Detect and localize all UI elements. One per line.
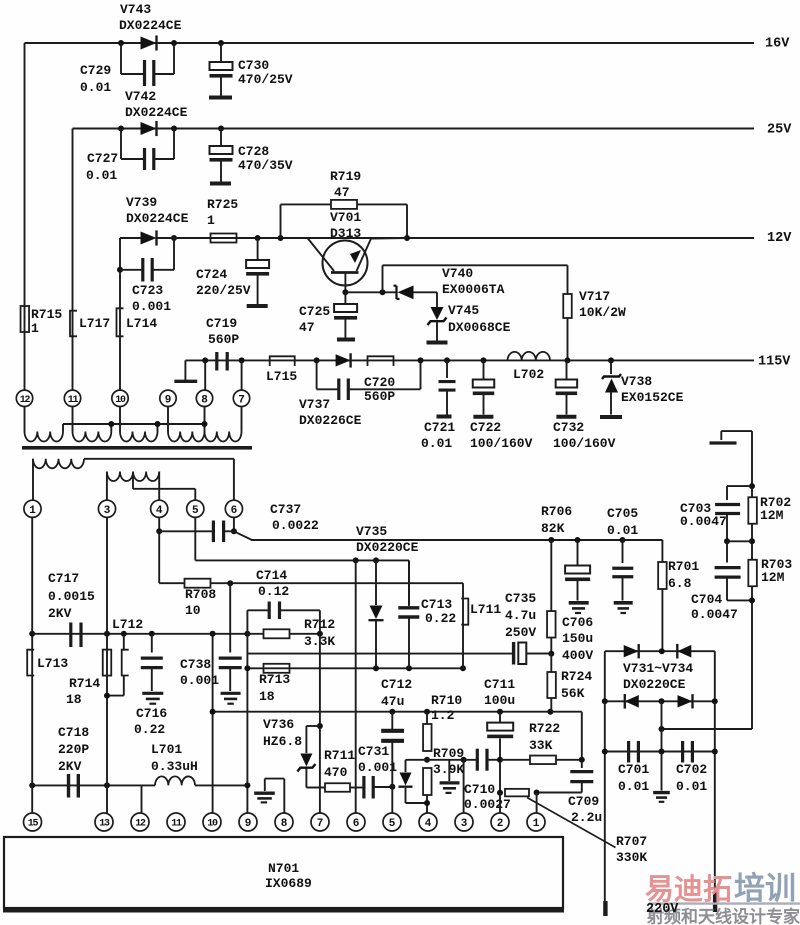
wire pin6 drop bbox=[233, 517, 235, 531]
node bbox=[218, 40, 224, 46]
svg-text:18: 18 bbox=[66, 692, 82, 707]
diode V731 bbox=[624, 644, 639, 658]
pin 5 (IC) bbox=[383, 813, 401, 831]
inductor L712 bbox=[107, 617, 143, 695]
wire pin9 stub bbox=[167, 406, 169, 431]
svg-text:220V: 220V bbox=[646, 902, 679, 917]
ground (hot) bbox=[710, 431, 753, 443]
svg-text:N701: N701 bbox=[268, 861, 299, 876]
IC N701 box bbox=[3, 837, 564, 913]
inductor L702 bbox=[508, 352, 551, 382]
svg-text:0.22: 0.22 bbox=[425, 611, 456, 626]
wire net I bbox=[32, 784, 247, 786]
capacitor C724 bbox=[196, 238, 269, 306]
svg-text:R725: R725 bbox=[207, 197, 238, 212]
svg-text:L701: L701 bbox=[151, 742, 182, 757]
node bbox=[497, 790, 503, 796]
svg-text:C706: C706 bbox=[562, 615, 593, 630]
diode V733 bbox=[625, 694, 639, 709]
node bbox=[373, 557, 379, 563]
wire pin3-pin13 vertical bbox=[106, 517, 108, 777]
capacitor C730 bbox=[209, 43, 293, 98]
node bbox=[534, 790, 540, 796]
svg-text:C725: C725 bbox=[299, 304, 330, 319]
svg-text:560P: 560P bbox=[364, 389, 395, 404]
winding primary group1 bbox=[25, 432, 63, 442]
node bbox=[424, 800, 430, 806]
wire pin1 stub bbox=[536, 793, 538, 814]
svg-text:V736: V736 bbox=[263, 717, 294, 732]
node bbox=[659, 749, 665, 755]
capacitor C738 bbox=[180, 583, 242, 704]
pin 6 (IC) bbox=[347, 813, 365, 831]
pin 8 (IC) bbox=[275, 813, 293, 831]
pin 11 (IC) bbox=[167, 813, 185, 831]
resistor R712 bbox=[247, 617, 335, 649]
node bbox=[202, 357, 208, 363]
node bbox=[104, 782, 110, 788]
wire pin13 stub bbox=[106, 777, 108, 813]
resistor R702 bbox=[748, 495, 791, 560]
svg-text:R711: R711 bbox=[324, 748, 355, 763]
node bbox=[460, 665, 466, 671]
wire W1 left bbox=[32, 459, 34, 500]
capacitor C732 bbox=[553, 360, 616, 450]
svg-text:12M: 12M bbox=[761, 570, 785, 585]
capacitor C705 bbox=[607, 506, 638, 613]
capacitor C727 bbox=[86, 148, 154, 183]
pin 5 (secondary) bbox=[187, 500, 204, 517]
winding primary group5 bbox=[205, 432, 242, 442]
svg-text:C711: C711 bbox=[484, 677, 515, 692]
svg-text:250V: 250V bbox=[505, 625, 536, 640]
wire net D bbox=[32, 633, 247, 635]
node bbox=[404, 235, 410, 241]
wire V717 top link bbox=[383, 265, 568, 294]
capacitor C729 bbox=[80, 60, 154, 95]
svg-text:13: 13 bbox=[99, 819, 110, 830]
wire 115V rail bbox=[185, 359, 754, 361]
svg-text:L713: L713 bbox=[37, 656, 68, 671]
node bbox=[380, 289, 386, 295]
capacitor C723 bbox=[132, 258, 171, 314]
node bbox=[608, 357, 614, 363]
svg-text:1: 1 bbox=[207, 213, 215, 228]
wire pin12 stub bbox=[24, 406, 26, 431]
pin 2 (IC) bbox=[491, 813, 509, 831]
svg-text:C737: C737 bbox=[270, 502, 301, 517]
capacitor C735 bbox=[505, 591, 548, 664]
wire pin7 stub bbox=[241, 406, 243, 431]
svg-text:11: 11 bbox=[171, 819, 182, 830]
wire net G bbox=[213, 711, 582, 713]
node bbox=[659, 726, 665, 732]
svg-text:8: 8 bbox=[281, 818, 288, 830]
svg-text:C718: C718 bbox=[58, 725, 89, 740]
node bbox=[227, 580, 233, 586]
capacitor C718 bbox=[58, 725, 89, 797]
wire pin12 drop bbox=[24, 43, 26, 391]
wire pin10 long vertical bbox=[212, 634, 214, 813]
svg-text:C717: C717 bbox=[48, 571, 79, 586]
wire AC left vertical bbox=[603, 701, 607, 916]
node bbox=[118, 126, 124, 132]
svg-text:C721: C721 bbox=[424, 420, 455, 435]
wire pin8 drop bbox=[204, 360, 206, 390]
svg-text:DX0220CE: DX0220CE bbox=[623, 677, 686, 692]
svg-text:EX0152CE: EX0152CE bbox=[621, 390, 684, 405]
diode V742 bbox=[125, 89, 188, 136]
capacitor C719 bbox=[206, 316, 239, 370]
svg-text:115V: 115V bbox=[758, 355, 791, 370]
diode V734 bbox=[678, 694, 693, 708]
resistor R710 bbox=[423, 693, 462, 751]
node bbox=[547, 709, 553, 715]
svg-text:11: 11 bbox=[68, 395, 79, 406]
capacitor C709 bbox=[537, 760, 603, 825]
svg-text:6: 6 bbox=[231, 505, 238, 517]
node bbox=[444, 357, 450, 363]
node bbox=[749, 483, 755, 489]
node bbox=[202, 421, 208, 427]
wire base net bbox=[345, 291, 396, 293]
resistor R707 bbox=[505, 789, 647, 865]
wire C720 loop bbox=[317, 360, 421, 389]
node bbox=[575, 537, 581, 543]
svg-text:R701: R701 bbox=[668, 559, 699, 574]
wire net F bbox=[247, 667, 463, 669]
wire bridge center drop bbox=[661, 701, 663, 751]
node bbox=[712, 749, 718, 755]
svg-text:L714: L714 bbox=[126, 316, 157, 331]
wire pin3 stub bbox=[463, 760, 465, 813]
capacitor C737 bbox=[213, 502, 319, 542]
svg-text:0.01: 0.01 bbox=[618, 779, 649, 794]
capacitor C710 bbox=[464, 749, 511, 813]
resistor R715 bbox=[21, 306, 63, 336]
svg-text:0.33uH: 0.33uH bbox=[151, 759, 198, 774]
wire net C bbox=[159, 583, 463, 598]
node bbox=[659, 648, 665, 654]
wire C737 link bbox=[159, 530, 213, 532]
node bbox=[108, 421, 114, 427]
wire pin1-pin15 vertical bbox=[31, 517, 33, 777]
diode parallel R709 bbox=[399, 760, 428, 803]
node bbox=[749, 538, 755, 544]
wire C729 loop bbox=[121, 43, 174, 74]
inductor after V737 bbox=[368, 356, 394, 366]
svg-text:C722: C722 bbox=[470, 420, 501, 435]
node bbox=[171, 126, 177, 132]
node bbox=[579, 757, 585, 763]
svg-text:R710: R710 bbox=[431, 693, 462, 708]
svg-text:470: 470 bbox=[324, 765, 348, 780]
diode V736 bbox=[263, 717, 320, 787]
svg-text:R724: R724 bbox=[561, 669, 592, 684]
diode V735 bbox=[369, 560, 384, 668]
svg-text:16V: 16V bbox=[765, 37, 790, 52]
svg-text:DX0068CE: DX0068CE bbox=[448, 320, 511, 335]
svg-text:C719: C719 bbox=[206, 316, 237, 331]
svg-text:C720: C720 bbox=[364, 375, 395, 390]
pin 4 (IC) bbox=[419, 813, 437, 831]
node bbox=[497, 757, 503, 763]
svg-text:0.001: 0.001 bbox=[132, 299, 171, 314]
capacitor C721 bbox=[421, 360, 456, 450]
capacitor C703 bbox=[680, 486, 752, 541]
svg-text:47: 47 bbox=[334, 185, 350, 200]
svg-text:7: 7 bbox=[238, 394, 245, 406]
watermark line2 bbox=[646, 907, 800, 925]
svg-text:C727: C727 bbox=[87, 151, 118, 166]
resistor R701 bbox=[658, 559, 699, 651]
node bbox=[565, 357, 571, 363]
net label 220V bbox=[646, 902, 679, 917]
diode V740 bbox=[394, 266, 505, 299]
resistor R711 bbox=[306, 748, 363, 792]
svg-text:150u: 150u bbox=[562, 631, 593, 646]
svg-text:C728: C728 bbox=[238, 144, 269, 159]
node bbox=[255, 235, 261, 241]
node bbox=[155, 421, 161, 427]
capacitor C722 bbox=[470, 360, 533, 450]
winding primary group3 bbox=[120, 432, 158, 442]
svg-text:L717: L717 bbox=[79, 316, 110, 331]
node bbox=[239, 357, 245, 363]
diode V745 bbox=[427, 292, 511, 342]
wire pin10 stub bbox=[119, 406, 121, 431]
svg-text:C731: C731 bbox=[358, 744, 389, 759]
watermark line1 bbox=[645, 872, 800, 909]
svg-text:V740: V740 bbox=[442, 266, 473, 281]
svg-text:0.001: 0.001 bbox=[180, 673, 219, 688]
svg-text:3: 3 bbox=[461, 818, 468, 830]
svg-text:4.7u: 4.7u bbox=[505, 608, 536, 623]
pin 6 (secondary) bbox=[225, 500, 242, 517]
node bbox=[118, 40, 124, 46]
node bbox=[548, 651, 554, 657]
net label 12V bbox=[767, 231, 792, 246]
capacitor C702 bbox=[676, 741, 707, 794]
svg-text:HZ6.8: HZ6.8 bbox=[263, 734, 302, 749]
svg-text:5: 5 bbox=[192, 505, 199, 517]
svg-text:10K/2W: 10K/2W bbox=[579, 305, 626, 320]
label V731~V734 bbox=[623, 661, 693, 692]
capacitor C704 bbox=[691, 541, 752, 622]
node bbox=[353, 557, 359, 563]
svg-text:EX0006TA: EX0006TA bbox=[442, 282, 505, 297]
svg-text:47: 47 bbox=[299, 320, 315, 335]
resistor R708 bbox=[185, 579, 217, 619]
wire net B bbox=[195, 560, 409, 604]
transformer core bbox=[22, 446, 252, 450]
node bbox=[620, 537, 626, 543]
svg-text:C729: C729 bbox=[80, 63, 111, 78]
svg-text:0.0015: 0.0015 bbox=[48, 589, 95, 604]
svg-text:C716: C716 bbox=[136, 706, 167, 721]
svg-text:V745: V745 bbox=[448, 303, 479, 318]
resistor R725 bbox=[207, 197, 238, 243]
svg-text:L712: L712 bbox=[112, 617, 143, 632]
node bbox=[210, 631, 216, 637]
resistor R713 bbox=[259, 664, 290, 704]
node bbox=[406, 665, 412, 671]
pin 10 (IC) bbox=[203, 813, 221, 831]
capacitor C716 bbox=[134, 634, 167, 737]
capacitor C725 bbox=[299, 292, 357, 339]
pin 3 (secondary) bbox=[98, 500, 115, 517]
svg-text:25V: 25V bbox=[767, 123, 792, 138]
svg-text:C712: C712 bbox=[381, 677, 412, 692]
node bbox=[171, 40, 177, 46]
svg-text:4: 4 bbox=[156, 505, 163, 517]
transistor V701 bbox=[281, 210, 408, 292]
svg-text:V742: V742 bbox=[125, 89, 156, 104]
node bbox=[424, 709, 430, 715]
wire C727 loop bbox=[121, 129, 174, 160]
pin 12 (primary) bbox=[16, 390, 32, 406]
svg-text:470/25V: 470/25V bbox=[238, 72, 293, 87]
svg-text:R706: R706 bbox=[541, 504, 572, 519]
svg-text:V735: V735 bbox=[356, 524, 387, 539]
pin 7 (primary) bbox=[233, 390, 249, 406]
node bbox=[712, 698, 718, 704]
svg-text:0.0047: 0.0047 bbox=[680, 514, 727, 529]
pin 3 (IC) bbox=[455, 813, 473, 831]
svg-text:R712: R712 bbox=[304, 617, 335, 632]
svg-text:V731~V734: V731~V734 bbox=[623, 661, 693, 676]
pin 9 (primary) bbox=[160, 390, 176, 406]
wire net H bbox=[406, 759, 501, 761]
capacitor C735 node link bbox=[527, 653, 552, 655]
pin 9 (IC) bbox=[239, 813, 257, 831]
svg-text:C714: C714 bbox=[256, 568, 287, 583]
node bbox=[117, 267, 123, 273]
wire pin5 drop bbox=[194, 517, 196, 560]
svg-text:V701: V701 bbox=[330, 210, 361, 225]
node bbox=[244, 631, 250, 637]
svg-text:V743: V743 bbox=[120, 2, 151, 17]
svg-text:L702: L702 bbox=[513, 367, 544, 382]
wire C723 loop bbox=[120, 238, 174, 270]
svg-text:V737: V737 bbox=[299, 397, 330, 412]
svg-text:0.0047: 0.0047 bbox=[691, 607, 738, 622]
node bbox=[724, 538, 730, 544]
capacitor C713 bbox=[398, 560, 456, 668]
svg-text:220/25V: 220/25V bbox=[196, 283, 251, 298]
node bbox=[389, 709, 395, 715]
node bbox=[602, 698, 608, 704]
svg-text:1: 1 bbox=[31, 321, 39, 336]
svg-text:C732: C732 bbox=[553, 420, 584, 435]
pin 7 (IC) bbox=[311, 813, 329, 831]
node bbox=[231, 528, 237, 534]
svg-text:6: 6 bbox=[353, 818, 360, 830]
wire bridge feed bbox=[662, 728, 753, 730]
ground bbox=[653, 752, 670, 802]
node bbox=[314, 357, 320, 363]
pin 4 (secondary) bbox=[151, 500, 168, 517]
node bbox=[373, 665, 379, 671]
svg-text:33K: 33K bbox=[529, 738, 553, 753]
svg-text:12: 12 bbox=[135, 819, 146, 830]
wire bridge bottom bbox=[605, 700, 715, 702]
wire 12V rail bbox=[157, 237, 755, 239]
wire pin4 drop bbox=[158, 517, 160, 583]
svg-text:D313: D313 bbox=[330, 226, 361, 241]
svg-text:C723: C723 bbox=[132, 283, 163, 298]
svg-text:2.2u: 2.2u bbox=[571, 810, 602, 825]
svg-text:R722: R722 bbox=[529, 721, 560, 736]
pin 10 (primary) bbox=[112, 390, 128, 406]
svg-text:0.001: 0.001 bbox=[358, 760, 397, 775]
capacitor C714 bbox=[247, 568, 320, 634]
inductor L715 bbox=[266, 356, 297, 384]
inductor L714 bbox=[117, 308, 158, 336]
wire divider top bbox=[751, 431, 753, 497]
resistor R703 bbox=[748, 557, 792, 729]
wire pin10 drop bbox=[119, 238, 121, 391]
node bbox=[278, 235, 284, 241]
wire W2 left bbox=[106, 472, 108, 501]
net label 16V bbox=[765, 37, 790, 52]
resistor R722 bbox=[500, 721, 582, 764]
svg-text:100/160V: 100/160V bbox=[553, 436, 616, 451]
wire 25V rail bbox=[73, 128, 755, 130]
svg-text:V739: V739 bbox=[126, 195, 157, 210]
node bbox=[389, 784, 395, 790]
node bbox=[424, 757, 430, 763]
resistor R706 bbox=[541, 504, 572, 653]
node bbox=[149, 631, 155, 637]
capacitor C712 bbox=[381, 677, 412, 813]
svg-text:0.01: 0.01 bbox=[421, 436, 452, 451]
svg-text:560P: 560P bbox=[208, 332, 239, 347]
wire bridge top bbox=[605, 651, 715, 701]
net label 115V bbox=[758, 355, 791, 370]
node bbox=[171, 235, 177, 241]
svg-text:2: 2 bbox=[497, 818, 504, 830]
wire C701 net bbox=[605, 751, 715, 753]
svg-text:330K: 330K bbox=[616, 850, 647, 865]
svg-text:0.01: 0.01 bbox=[676, 779, 707, 794]
svg-text:R714: R714 bbox=[69, 676, 100, 691]
svg-text:10: 10 bbox=[185, 603, 201, 618]
capacitor C706 bbox=[562, 540, 593, 663]
inductor L711 bbox=[461, 599, 501, 669]
node bbox=[342, 289, 348, 295]
svg-text:C705: C705 bbox=[607, 506, 638, 521]
pin 8 (primary) bbox=[196, 390, 212, 406]
inductor L713 bbox=[27, 650, 68, 676]
svg-text:10: 10 bbox=[207, 819, 218, 830]
svg-text:0.22: 0.22 bbox=[134, 722, 165, 737]
svg-text:0.01: 0.01 bbox=[607, 523, 638, 538]
pin 12 (IC) bbox=[131, 813, 149, 831]
pin 11 (primary) bbox=[64, 390, 80, 406]
pin 13 (IC) bbox=[95, 813, 113, 831]
svg-text:DX0224CE: DX0224CE bbox=[126, 211, 189, 226]
capacitor C731 bbox=[358, 744, 397, 799]
svg-text:0.12: 0.12 bbox=[258, 584, 289, 599]
pin 1 (secondary) bbox=[24, 500, 41, 517]
svg-text:400V: 400V bbox=[562, 648, 593, 663]
svg-text:DX0224CE: DX0224CE bbox=[125, 105, 188, 120]
diode V738 bbox=[600, 360, 684, 417]
svg-text:12M: 12M bbox=[760, 508, 784, 523]
node bbox=[244, 665, 250, 671]
wire W1 to pin6 bbox=[84, 459, 234, 500]
